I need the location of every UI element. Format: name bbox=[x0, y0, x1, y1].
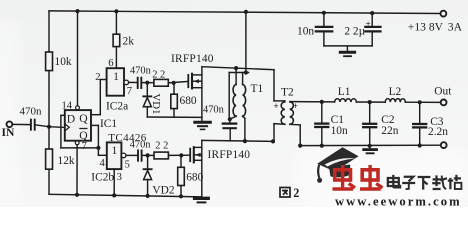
node rail dot pin14 bbox=[75, 9, 79, 13]
node C1 bottom junction bbox=[320, 144, 324, 148]
svg-text:Out: Out bbox=[434, 86, 452, 98]
transistor Q2 IRFP140 bbox=[189, 149, 191, 162]
capacitor C2 bbox=[369, 102, 371, 123]
ground decoupling bbox=[346, 46, 348, 51]
capacitor C3 bbox=[419, 102, 421, 123]
svg-text:470n: 470n bbox=[203, 104, 225, 115]
svg-text:IRFP140: IRFP140 bbox=[208, 149, 251, 161]
svg-text:IC2b: IC2b bbox=[91, 171, 114, 183]
capacitor 470n input bbox=[30, 120, 32, 130]
resistor 10k bbox=[46, 52, 53, 71]
node 680 junction top bbox=[172, 81, 176, 85]
wire T1 right bottom drop bbox=[243, 116, 245, 118]
ground filter bus bbox=[369, 146, 371, 149]
svg-text:+: + bbox=[366, 19, 371, 29]
node drain net end dot bbox=[271, 139, 275, 143]
wire bottom drain net bbox=[202, 140, 273, 141]
wire Q2 drain riser bbox=[201, 140, 203, 147]
wire T1 left winding riser bbox=[235, 68, 237, 84]
svg-text:T2: T2 bbox=[281, 86, 294, 98]
node 680 junction bottom bbox=[179, 153, 183, 157]
svg-text:2k: 2k bbox=[123, 36, 135, 48]
wire 12k to ground rail bbox=[48, 169, 50, 194]
svg-text:7: 7 bbox=[82, 141, 87, 152]
svg-text:10n: 10n bbox=[331, 125, 348, 137]
svg-text:+13 8V: +13 8V bbox=[408, 21, 444, 34]
wire Qbar output bbox=[91, 124, 98, 126]
node bus dot T2 bbox=[298, 144, 302, 148]
transformer T2 bbox=[281, 102, 285, 125]
clock triangle bbox=[65, 124, 70, 131]
inductor L2 bbox=[385, 99, 405, 103]
node VD2 junction bbox=[146, 153, 150, 157]
wire T1 centre bar bbox=[229, 72, 248, 74]
svg-text:+: + bbox=[293, 101, 298, 111]
wire T2 primary top feed bbox=[273, 70, 275, 101]
svg-text:22n: 22n bbox=[381, 125, 398, 137]
wire R2.2 to gate Q2 bbox=[168, 154, 190, 156]
chongchong red characters bbox=[333, 165, 356, 189]
watermark logo bbox=[317, 147, 359, 183]
wire 10k to input node bbox=[48, 71, 50, 127]
svg-text:3: 3 bbox=[117, 172, 122, 183]
svg-text:4: 4 bbox=[100, 158, 106, 169]
gate driver IC2a box bbox=[107, 68, 124, 96]
wire VCC tap to T1 bbox=[245, 12, 247, 73]
svg-text:680: 680 bbox=[180, 95, 197, 107]
wire feedback left vertical bbox=[60, 115, 62, 148]
resistor 2k bbox=[113, 34, 120, 46]
node ground rail dot pin3 bbox=[112, 193, 116, 197]
node C2 bottom junction bbox=[368, 144, 372, 148]
svg-text:VD1: VD1 bbox=[150, 94, 162, 115]
svg-text:470n: 470n bbox=[130, 140, 152, 151]
svg-text:D: D bbox=[67, 112, 75, 125]
svg-text:2 2: 2 2 bbox=[155, 140, 168, 151]
svg-text:1: 1 bbox=[113, 71, 119, 83]
svg-text:6: 6 bbox=[108, 58, 113, 69]
wire T1 left side vertical bbox=[228, 73, 230, 120]
node T1 bar dot bbox=[244, 70, 248, 74]
wire IN to C-in bbox=[12, 123, 30, 125]
wire output filter top line bbox=[290, 101, 335, 103]
resistor 680 top bbox=[173, 83, 175, 94]
hanzi zai bbox=[432, 175, 447, 189]
node C2 top junction bbox=[368, 100, 372, 104]
transformer T1 bbox=[233, 85, 236, 117]
wire Q1 drain to T1 bbox=[202, 67, 274, 70]
node rail dot 10n bbox=[322, 11, 326, 15]
wire C-in to clock pin bbox=[35, 125, 49, 127]
node T1 left top dot bbox=[234, 66, 238, 70]
svg-text:Q: Q bbox=[79, 112, 88, 125]
svg-text:T1: T1 bbox=[251, 83, 264, 95]
svg-text:IRFP140: IRFP140 bbox=[171, 53, 214, 65]
hanzi zi bbox=[402, 177, 415, 189]
wire input node to 12k bbox=[48, 127, 50, 149]
inductor L1 bbox=[335, 99, 357, 102]
capacitor 470n bottom chain bbox=[137, 150, 139, 160]
hanzi dian bbox=[388, 175, 401, 188]
node ground rail dot pin7 bbox=[75, 193, 79, 197]
pin 14 bubble bbox=[76, 106, 80, 110]
wire Q2 source vertical bbox=[201, 147, 203, 197]
node IN terminal bbox=[6, 121, 12, 127]
node feedback junction bbox=[96, 146, 100, 150]
node rail dot 2.2u bbox=[370, 11, 374, 15]
wire feedback horizontal bbox=[61, 147, 99, 149]
node Out terminal bbox=[441, 100, 447, 106]
IC2b output bubble pin5 bbox=[121, 153, 126, 158]
wire decoupling bottom U bbox=[324, 45, 372, 47]
wire cap to R2.2 bottom bbox=[142, 154, 154, 156]
svg-text:VD2: VD2 bbox=[152, 185, 174, 197]
wire IC2a out to cap bbox=[129, 81, 137, 83]
wire 2k to IC2a pin6 bbox=[115, 47, 117, 69]
resistor 2.2 top bbox=[154, 79, 168, 86]
node input junction bbox=[47, 125, 51, 129]
capacitor C1 bbox=[321, 102, 323, 123]
node C3 top junction bbox=[418, 100, 422, 104]
wire T2 primary bottom return bbox=[274, 123, 285, 126]
pin 7 bubble bbox=[75, 141, 79, 145]
gate driver IC2b box bbox=[107, 142, 122, 169]
svg-text:12k: 12k bbox=[58, 155, 75, 167]
resistor 2.2 bottom bbox=[154, 152, 168, 159]
wire cap to R2.2 top bbox=[142, 82, 154, 84]
svg-text:470n: 470n bbox=[130, 66, 152, 77]
wire feedback to IC2b pin4 bbox=[97, 148, 99, 155]
label figure 2 bbox=[280, 188, 290, 198]
hanzi zhan bbox=[448, 175, 462, 189]
resistor 680 bottom bbox=[180, 155, 182, 167]
node ground rail dot VD2 bbox=[146, 194, 150, 198]
graduation cap bbox=[317, 147, 358, 171]
wire R2.2 to gate bbox=[168, 81, 188, 82]
wire top local ground bus bbox=[147, 116, 202, 118]
svg-text:10n: 10n bbox=[297, 26, 314, 38]
wire IC2b pin3 to ground bbox=[113, 169, 115, 195]
svg-text:2: 2 bbox=[95, 72, 100, 83]
IC2a output bubble pin7 bbox=[124, 80, 129, 85]
node rail dot 2k bbox=[114, 9, 118, 13]
svg-text:10k: 10k bbox=[55, 56, 72, 68]
ground top channel bbox=[195, 121, 211, 124]
wire T2 secondary bottom drop bbox=[290, 123, 300, 126]
wire Q1 drain/source vertical bbox=[201, 67, 203, 123]
svg-text:2.2n: 2.2n bbox=[428, 126, 448, 138]
node rail dot T1 tap bbox=[244, 10, 248, 14]
wire pin7 to ground rail bbox=[76, 145, 78, 195]
svg-text:L2: L2 bbox=[389, 86, 402, 98]
svg-text:L1: L1 bbox=[338, 86, 351, 98]
wire D feedback stub bbox=[61, 114, 65, 116]
svg-text:3A: 3A bbox=[448, 21, 463, 34]
hanzi xia bbox=[418, 177, 431, 190]
node VCC terminal bbox=[441, 11, 447, 17]
svg-text:1: 1 bbox=[112, 145, 118, 157]
diode VD1 bbox=[146, 83, 148, 96]
node C1 top junction bbox=[320, 100, 324, 104]
svg-text:IN: IN bbox=[2, 126, 16, 139]
svg-text:2: 2 bbox=[293, 186, 299, 200]
diode VD2 bbox=[147, 155, 149, 168]
node Out ground terminal bbox=[441, 142, 447, 148]
svg-text:Q: Q bbox=[79, 129, 88, 142]
svg-text:+: + bbox=[274, 101, 279, 111]
node T1 bottom dot bbox=[228, 117, 232, 121]
wire VCC top rail bbox=[49, 11, 440, 14]
capacitor 470n top chain bbox=[137, 78, 139, 88]
svg-text:2 2µ: 2 2µ bbox=[344, 26, 365, 38]
capacitor 2.2u bbox=[371, 13, 373, 26]
wire T1 left bottom hook bbox=[230, 116, 236, 119]
wire Q output to IC2a pin2 bbox=[91, 114, 100, 116]
svg-text:IC2a: IC2a bbox=[106, 101, 128, 113]
ground bottom bar bbox=[195, 197, 209, 200]
node drain net dot bbox=[243, 139, 247, 143]
svg-text:470n: 470n bbox=[20, 105, 43, 117]
wire output filter ground bus bbox=[300, 144, 440, 146]
capacitor 470n at T1 bbox=[229, 119, 231, 122]
transistor Q1 IRFP140 bbox=[187, 75, 189, 87]
resistor 12k bbox=[46, 149, 53, 169]
node VD1 junction bbox=[145, 81, 149, 85]
wire left branch vertical (divider top) bbox=[48, 11, 50, 52]
wire bottom ground rail bbox=[49, 194, 202, 197]
svg-text:www.eeworm.com: www.eeworm.com bbox=[335, 195, 462, 208]
svg-text:14: 14 bbox=[62, 101, 73, 112]
svg-text:2 2: 2 2 bbox=[152, 69, 165, 80]
wire rail to 2k bbox=[115, 11, 117, 34]
node ground rail dot 680 bbox=[179, 194, 183, 198]
flip-flop IC1 box bbox=[65, 110, 91, 141]
svg-text:680: 680 bbox=[186, 171, 203, 183]
wire pin14 from rail bbox=[77, 11, 79, 106]
node C3 bottom junction bbox=[418, 143, 422, 147]
svg-text:5: 5 bbox=[125, 160, 130, 171]
svg-text:7: 7 bbox=[127, 86, 132, 97]
wire IC2b out to cap bbox=[126, 154, 137, 156]
svg-text:IC1: IC1 bbox=[100, 118, 117, 130]
capacitor 10n bbox=[323, 13, 325, 26]
